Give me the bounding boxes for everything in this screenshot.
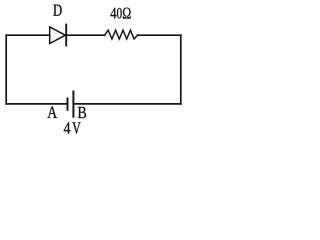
wire bottom left segment [6,103,67,105]
wire left vertical [5,35,7,104]
label 40ohm omega [123,8,131,19]
label 4V digit 4 [64,122,71,133]
label A (node A) [47,107,57,119]
battery cell plate negative short [67,98,69,111]
wire top left segment [6,34,50,36]
label 40ohm digit 4 [110,8,116,19]
resistor 40ohm zigzag [105,30,138,39]
wire bottom right segment [73,103,180,105]
battery cell plate positive long [72,91,74,118]
label D (diode) [53,5,61,16]
wire top middle segment [66,34,104,36]
label 4V letter V [72,122,80,133]
diode D cathode bar [65,24,67,47]
label B (node B) [78,107,86,118]
wire right vertical [180,35,182,104]
wire top right segment [138,34,181,36]
diode D triangle [50,27,66,44]
label 40ohm digit 0 [117,8,122,19]
